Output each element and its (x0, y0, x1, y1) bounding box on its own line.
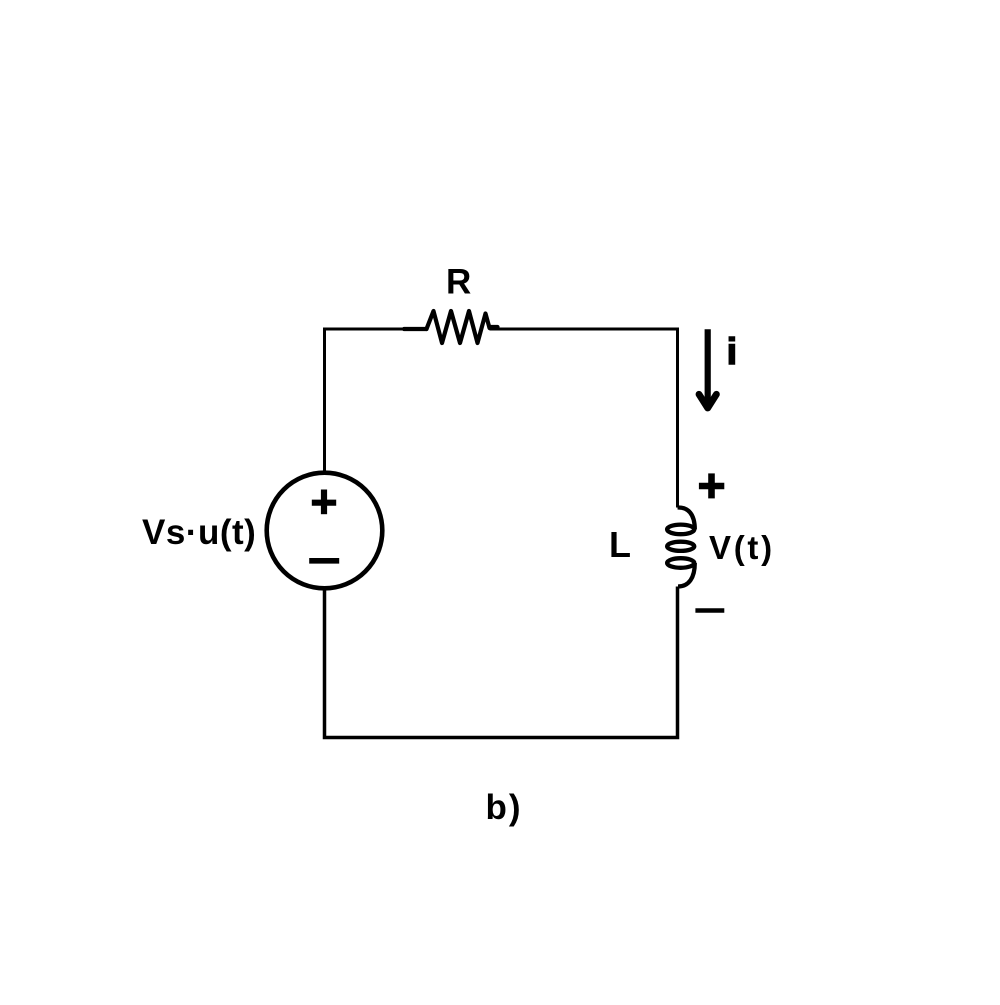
voltage source V1 circle (267, 473, 383, 589)
current arrow i (699, 329, 716, 408)
svg-text:V(t): V(t) (709, 529, 775, 566)
voltage source plus sign (312, 490, 336, 515)
svg-text:R: R (446, 263, 471, 302)
svg-text:Vs·u(t): Vs·u(t) (142, 513, 256, 552)
wire left-bottom segment (325, 587, 678, 738)
svg-text:i: i (727, 331, 737, 372)
svg-text:b): b) (486, 788, 523, 827)
wire top-right segment (490, 329, 678, 508)
inductor L coil (667, 507, 695, 586)
inductor plus sign (699, 473, 724, 498)
voltage source minus sign (309, 558, 339, 564)
resistor R (404, 311, 498, 343)
inductor minus sign (695, 608, 724, 612)
wire top-left segment (325, 329, 427, 471)
svg-text:L: L (609, 524, 631, 565)
